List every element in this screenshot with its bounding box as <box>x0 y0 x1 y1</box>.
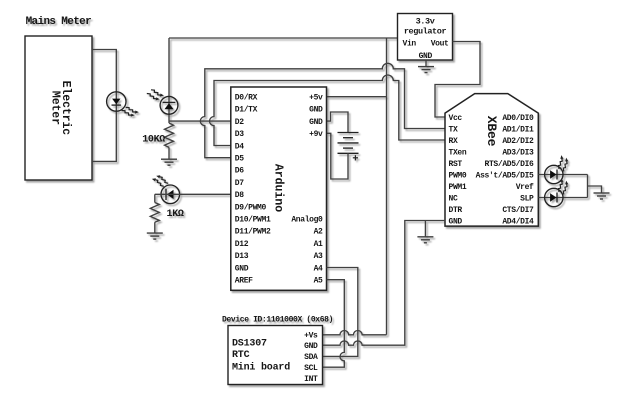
svg-text:AD3/DI3: AD3/DI3 <box>502 148 534 157</box>
svg-text:RX: RX <box>449 137 458 146</box>
svg-text:regulator: regulator <box>404 27 447 37</box>
svg-text:1KΩ: 1KΩ <box>167 209 184 220</box>
wire: meter box loop through LED D1 <box>92 50 116 162</box>
svg-text:D11/PWM2: D11/PWM2 <box>235 228 271 237</box>
svg-text:D1/TX: D1/TX <box>235 106 258 115</box>
svg-text:AD1/DI1: AD1/DI1 <box>502 125 534 134</box>
svg-text:TXen: TXen <box>449 148 467 157</box>
wire: LED junction to ground <box>588 186 602 193</box>
svg-text:AREF: AREF <box>235 277 253 286</box>
wire: Arduino GND to battery top <box>327 112 349 133</box>
svg-text:A3: A3 <box>314 252 323 261</box>
svg-text:D7: D7 <box>235 179 244 188</box>
svg-text:Mains Meter: Mains Meter <box>26 16 92 28</box>
wire: node D2 junction to Arduino D2 <box>169 120 231 122</box>
svg-text:Vcc: Vcc <box>449 114 463 123</box>
svg-text:CTS/DI7: CTS/DI7 <box>502 206 534 215</box>
Arduino left pin labels <box>235 94 271 286</box>
regulator U2 3.3v <box>398 14 453 61</box>
wire: Arduino A5 to RTC SCL (hops over SDA wire) <box>323 280 345 368</box>
wire: D4 to XBee RX (up, across, hop at +5v rail, down) <box>210 75 446 146</box>
svg-text:AD4/DI4: AD4/DI4 <box>502 217 534 226</box>
svg-text:DTR: DTR <box>449 206 463 215</box>
LED D4 (XBee) <box>545 188 563 206</box>
svg-text:SCL: SCL <box>304 364 318 373</box>
XBee left pin labels <box>449 114 467 227</box>
wire: regulator Vout to XBee Vcc <box>435 42 480 118</box>
ground under regulator <box>418 67 434 73</box>
svg-text:D2: D2 <box>235 118 244 127</box>
svg-text:PWM0: PWM0 <box>449 171 467 180</box>
svg-text:3.3v: 3.3v <box>416 17 435 27</box>
svg-text:D10/PWM1: D10/PWM1 <box>235 216 271 225</box>
svg-text:A2: A2 <box>314 228 323 237</box>
wire: Arduino A4 to RTC SDA <box>323 268 358 357</box>
wire: XBee Ass't pin to LED <box>538 174 587 176</box>
svg-text:D9/PWM0: D9/PWM0 <box>235 203 267 212</box>
svg-text:D8: D8 <box>235 191 244 200</box>
svg-text:Vout: Vout <box>431 40 449 49</box>
wire: LED D5 anode to Arduino D8 <box>155 193 231 195</box>
phototransistor Q1 <box>160 96 178 114</box>
wire: XBee SLP pin to LED <box>538 197 587 199</box>
svg-text:A4: A4 <box>314 264 323 273</box>
wire: resistor 1K to ground <box>154 222 156 233</box>
wire: resistor to ground <box>168 147 170 158</box>
wire: RTC +Vs up to +5v rail (hops over SCL and SDA) <box>323 330 387 334</box>
svg-text:SDA: SDA <box>304 353 318 362</box>
svg-text:D0/RX: D0/RX <box>235 94 258 103</box>
svg-text:GND: GND <box>235 264 249 273</box>
svg-text:Arduino: Arduino <box>271 164 284 212</box>
svg-text:Meter: Meter <box>49 91 62 125</box>
svg-text:Device ID:1101000X (0x68): Device ID:1101000X (0x68) <box>222 316 333 325</box>
svg-text:+Vs: +Vs <box>304 332 318 341</box>
svg-text:GND: GND <box>449 217 463 226</box>
Arduino right pin labels <box>291 94 323 286</box>
RTC U4 DS1307 <box>228 326 323 385</box>
wire: vertical through phototransistor Q1 (collector to resistor) <box>168 38 170 123</box>
ground under 10K resistor <box>161 159 177 165</box>
ground under 1K resistor <box>147 233 163 239</box>
wire: battery bottom to Arduino +9v <box>327 133 349 179</box>
XBee U3 <box>445 94 538 227</box>
svg-text:Analog0: Analog0 <box>291 216 323 225</box>
RTC pin labels <box>304 332 318 384</box>
ground on XBee GND net <box>417 237 433 243</box>
plus label of battery <box>353 155 358 160</box>
LED D5 (indicator driven by D8) <box>161 185 180 204</box>
svg-text:+5v: +5v <box>309 94 323 103</box>
svg-text:D6: D6 <box>235 167 244 176</box>
svg-text:A5: A5 <box>314 277 323 286</box>
svg-text:D13: D13 <box>235 252 249 261</box>
svg-text:RTC: RTC <box>232 350 250 361</box>
svg-text:Ass't/AD5/DI5: Ass't/AD5/DI5 <box>476 171 534 180</box>
svg-text:DS1307: DS1307 <box>232 339 267 350</box>
Arduino U1 <box>231 87 327 290</box>
svg-text:AD2/DI2: AD2/DI2 <box>502 137 534 146</box>
svg-text:D4: D4 <box>235 142 244 151</box>
wire: GND stub to ground symbol <box>424 221 426 237</box>
resistor 1K <box>150 203 159 223</box>
light arrows into phototransistor Q1 <box>147 87 164 103</box>
svg-text:XBee: XBee <box>484 116 499 147</box>
XBee right pin labels <box>476 114 534 227</box>
svg-text:AD0/DI0: AD0/DI0 <box>502 114 534 123</box>
svg-text:D12: D12 <box>235 240 249 249</box>
svg-text:D5: D5 <box>235 155 244 164</box>
wire: +5v rail top horizontal (photo collector to regulator Vin) <box>169 37 398 39</box>
light emission arrows of LED D1 <box>122 104 139 119</box>
wire: regulator GND stub <box>425 60 427 66</box>
ground for XBee LEDs <box>594 193 610 199</box>
svg-text:RST: RST <box>449 160 463 169</box>
svg-text:GND: GND <box>309 106 323 115</box>
wire: LED cathodes joined at right <box>587 175 589 198</box>
LED D1 (meter pulse LED) <box>107 92 126 111</box>
svg-text:RTS/AD5/DI6: RTS/AD5/DI6 <box>485 160 535 169</box>
svg-text:D3: D3 <box>235 130 244 139</box>
battery B1 <box>338 133 359 154</box>
svg-text:GND: GND <box>304 342 318 351</box>
light emission arrows of LED D4 <box>555 178 570 194</box>
light emission arrows of LED D5 <box>152 173 168 189</box>
resistor 10K <box>165 123 174 147</box>
svg-text:GND: GND <box>309 118 323 127</box>
wire: D5 to XBee TX (up, across, hop at +5v rail, down) <box>200 63 445 157</box>
LED D3 (XBee) <box>545 165 563 183</box>
svg-text:GND: GND <box>419 52 433 61</box>
svg-text:+9v: +9v <box>309 130 323 139</box>
svg-text:SLP: SLP <box>520 194 534 203</box>
svg-text:TX: TX <box>449 125 458 134</box>
svg-text:Vref: Vref <box>516 183 534 192</box>
wire: XBee GND left and down to RTC GND <box>323 221 446 346</box>
svg-text:NC: NC <box>449 194 458 203</box>
svg-text:Vin: Vin <box>403 40 417 49</box>
light emission arrows of LED D3 <box>555 155 570 171</box>
svg-text:INT: INT <box>304 375 318 384</box>
svg-text:A1: A1 <box>314 240 323 249</box>
wire: Arduino +5v to rail junction <box>327 96 387 98</box>
box: Electric Meter <box>25 36 92 180</box>
svg-text:Mini board: Mini board <box>232 362 290 374</box>
wire: +5v rail vertical (Vin junction down to RTC +Vs) <box>386 38 388 335</box>
svg-text:PWM1: PWM1 <box>449 183 467 192</box>
svg-text:10KΩ: 10KΩ <box>142 135 165 146</box>
wire: LED D5 cathode to resistor 1K <box>154 194 156 202</box>
